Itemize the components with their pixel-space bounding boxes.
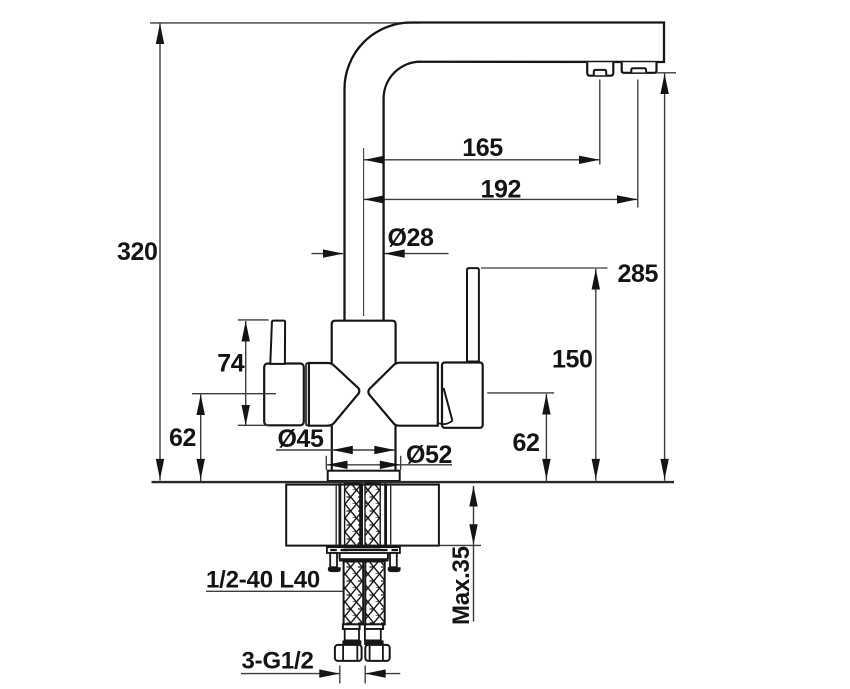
svg-text:1/2-40 L40: 1/2-40 L40: [206, 567, 320, 594]
dimension D52: [327, 441, 452, 469]
threaded shank thread line left: [335, 483, 337, 547]
svg-text:62: 62: [512, 429, 539, 457]
faucet spout and riser pipe outline: [345, 23, 665, 322]
svg-text:Max.35: Max.35: [448, 546, 475, 625]
svg-text:150: 150: [552, 346, 593, 374]
svg-text:165: 165: [462, 134, 503, 162]
dimension 150 vertical: [552, 269, 600, 481]
hose upper right braided section: [365, 483, 380, 547]
dimension 192 horizontal: [364, 176, 638, 204]
fitting left: collar, neck, band, hex nut: [335, 624, 362, 661]
svg-text:3-G1/2: 3-G1/2: [242, 648, 314, 675]
right lever: [467, 268, 479, 361]
extension line aerator A2: [637, 80, 639, 208]
extension line Max.35 bottom: [439, 544, 481, 546]
left handle grip: [264, 364, 304, 426]
dimension 165 horizontal: [364, 134, 600, 164]
mounting stud left: [328, 553, 341, 572]
aerator A2 under spout: [622, 62, 657, 73]
mounting nut plate: [327, 547, 400, 553]
shank middle divider bar: [360, 483, 363, 547]
wire top extension line from 320 dim to spout: [150, 22, 420, 24]
svg-text:285: 285: [617, 260, 658, 288]
label 3-G1/2 with leader and arrows: [241, 648, 400, 678]
extension line aerator A1: [599, 80, 601, 165]
hose lower left braided: [344, 562, 364, 625]
dimension Max.35 vertical: [448, 486, 478, 625]
dimension 285 vertical: [617, 74, 668, 481]
threaded shank wall bar left: [339, 483, 342, 547]
dimension 62 left vertical: [169, 395, 205, 482]
extension line G1/2 left: [339, 666, 341, 684]
fitting right: collar, neck, band, hex nut: [364, 624, 389, 661]
mounting stud right: [388, 553, 401, 572]
dimension 74 vertical: [217, 321, 250, 426]
dimension 62 right vertical: [512, 394, 550, 481]
extension line 62 left (handle centre): [192, 393, 276, 395]
extension line D52 left: [325, 456, 327, 470]
extension line 150 top (lever top): [481, 267, 608, 269]
dark clamp band: [339, 558, 389, 561]
threaded shank thread line right: [390, 483, 392, 547]
countertop block section: [286, 485, 439, 546]
body upper block: [332, 321, 396, 363]
svg-text:62: 62: [169, 424, 196, 452]
aerator A1 under spout: [587, 62, 613, 75]
countertop line: [152, 481, 675, 483]
right handle grip: [439, 363, 483, 428]
hose lower right braided: [365, 562, 384, 625]
svg-text:192: 192: [481, 176, 522, 204]
svg-text:74: 74: [217, 350, 245, 378]
left cone base ring: [306, 363, 309, 425]
right cone of body: [368, 363, 437, 426]
svg-text:Ø45: Ø45: [278, 425, 325, 453]
extension line 285 top: [657, 72, 677, 74]
extension line 74 top: [238, 319, 269, 321]
body column below cones: [331, 426, 333, 471]
svg-text:320: 320: [117, 238, 158, 266]
dimension D45: [276, 425, 395, 454]
extension line D52 right: [400, 456, 402, 470]
left lever: [270, 321, 285, 364]
base flange: [328, 471, 400, 481]
dimension D28: [312, 224, 449, 258]
pipe centerline: [363, 148, 365, 316]
dimension 320 vertical: [117, 24, 164, 481]
label 1/2-40 L40 with leader: [206, 567, 343, 594]
extension line G1/2 right: [364, 666, 366, 684]
hose upper left braided section: [345, 483, 360, 547]
svg-text:Ø28: Ø28: [388, 224, 435, 252]
extension line 74 bottom: [238, 424, 269, 426]
svg-text:Ø52: Ø52: [406, 441, 452, 469]
extension line 62 right (handle centre): [487, 392, 554, 394]
left cone of body: [309, 363, 359, 426]
tube stub below nut: [340, 553, 388, 559]
threaded shank wall bar right: [384, 483, 387, 547]
